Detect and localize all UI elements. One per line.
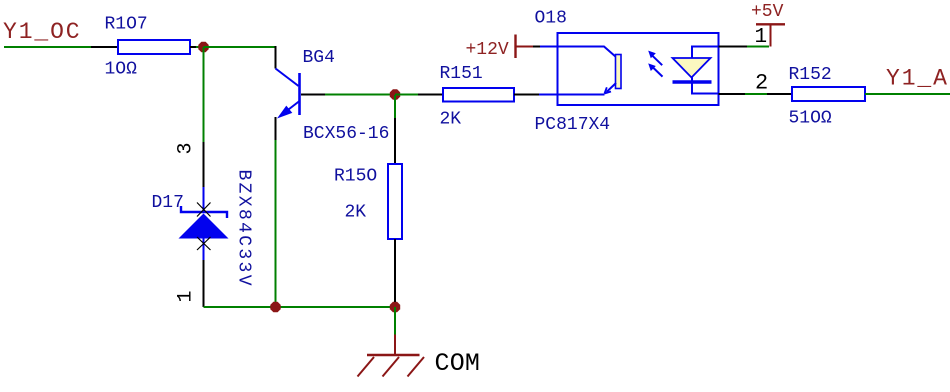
junction dot [390,302,400,312]
svg-text:Y1_OC: Y1_OC [3,19,82,45]
wire [767,93,792,95]
optocoupler O18 [535,9,719,136]
wire [203,142,205,187]
power +5V [751,2,785,47]
svg-text:Y1_A: Y1_A [886,66,949,92]
svg-text:R152: R152 [789,65,832,85]
wire [204,46,276,48]
wire bottom rail [204,306,396,308]
svg-text:2K: 2K [345,203,367,223]
wire pin2 [719,93,746,95]
power +12V [466,35,534,61]
svg-text:+5V: +5V [751,2,784,22]
opto LED [673,47,719,94]
svg-text:1: 1 [755,26,768,49]
svg-text:BG4: BG4 [303,48,335,68]
junction dot [198,42,208,52]
svg-text:+12V: +12V [466,40,509,60]
wire [4,46,91,48]
svg-text:O18: O18 [535,9,567,29]
ground COM symbol [358,355,425,377]
transistor BG4 [276,48,390,144]
svg-text:R1O7: R1O7 [105,15,148,35]
resistor R107 [105,15,191,80]
svg-text:COM: COM [435,349,481,378]
wire [745,93,767,95]
junction dot [390,89,400,99]
svg-text:1: 1 [175,290,198,302]
zener diode D17 [152,170,254,288]
wire [190,46,196,48]
svg-text:3: 3 [175,142,198,154]
wire [533,46,540,48]
opto light arrows [648,51,662,77]
opto phototransistor [539,47,621,95]
wire base lead [301,94,325,96]
svg-text:BCX56-16: BCX56-16 [303,124,389,144]
svg-text:BZX84C33V: BZX84C33V [234,170,254,288]
wire [394,335,396,356]
resistor R151 [395,64,539,130]
wire [865,93,950,95]
wire pin1 [719,46,748,48]
svg-text:2K: 2K [440,110,462,130]
wire [203,260,205,307]
wire ground branch [394,307,396,335]
svg-text:D17: D17 [152,193,184,213]
svg-text:1OΩ: 1OΩ [105,60,138,80]
wire [275,140,277,307]
wire left vertical [203,47,205,142]
resistor R152 [789,65,866,129]
wire [325,94,395,96]
wire [275,46,277,69]
junction dot [270,302,280,312]
wire [747,46,769,48]
svg-text:2: 2 [755,71,768,96]
wire [91,46,118,48]
wire [196,46,204,48]
svg-text:PC817X4: PC817X4 [535,115,611,135]
svg-text:51OΩ: 51OΩ [789,109,832,129]
svg-text:R15O: R15O [334,167,377,187]
wire emitter lead [275,117,277,140]
resistor R150 [334,95,402,302]
svg-text:R151: R151 [440,64,483,84]
